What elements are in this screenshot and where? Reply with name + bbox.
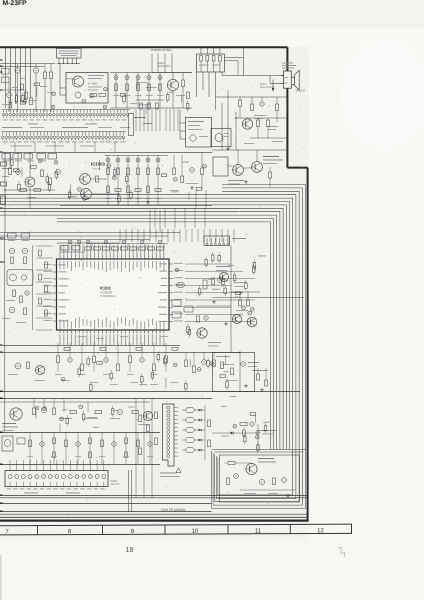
svg-text:IC-1001: IC-1001 <box>88 83 98 86</box>
svg-text:M-23FP: M-23FP <box>3 0 28 7</box>
svg-text:CN1002: CN1002 <box>111 483 121 486</box>
svg-text:SP1010: SP1010 <box>296 90 306 93</box>
svg-text:BLN-UK1P16: BLN-UK1P16 <box>260 86 275 89</box>
svg-text:10: 10 <box>192 528 199 535</box>
svg-text:(TC9318AF): (TC9318AF) <box>100 294 115 298</box>
svg-text:11: 11 <box>255 527 262 534</box>
svg-text:D9CH+3K0: D9CH+3K0 <box>158 65 172 68</box>
svg-text:CP4007TX/39U: CP4007TX/39U <box>151 48 172 52</box>
svg-text:IC1003: IC1003 <box>91 161 105 166</box>
svg-text:18: 18 <box>126 545 134 554</box>
svg-text:FOR FP-MODEL: FOR FP-MODEL <box>161 508 186 512</box>
svg-text:12: 12 <box>317 527 324 534</box>
